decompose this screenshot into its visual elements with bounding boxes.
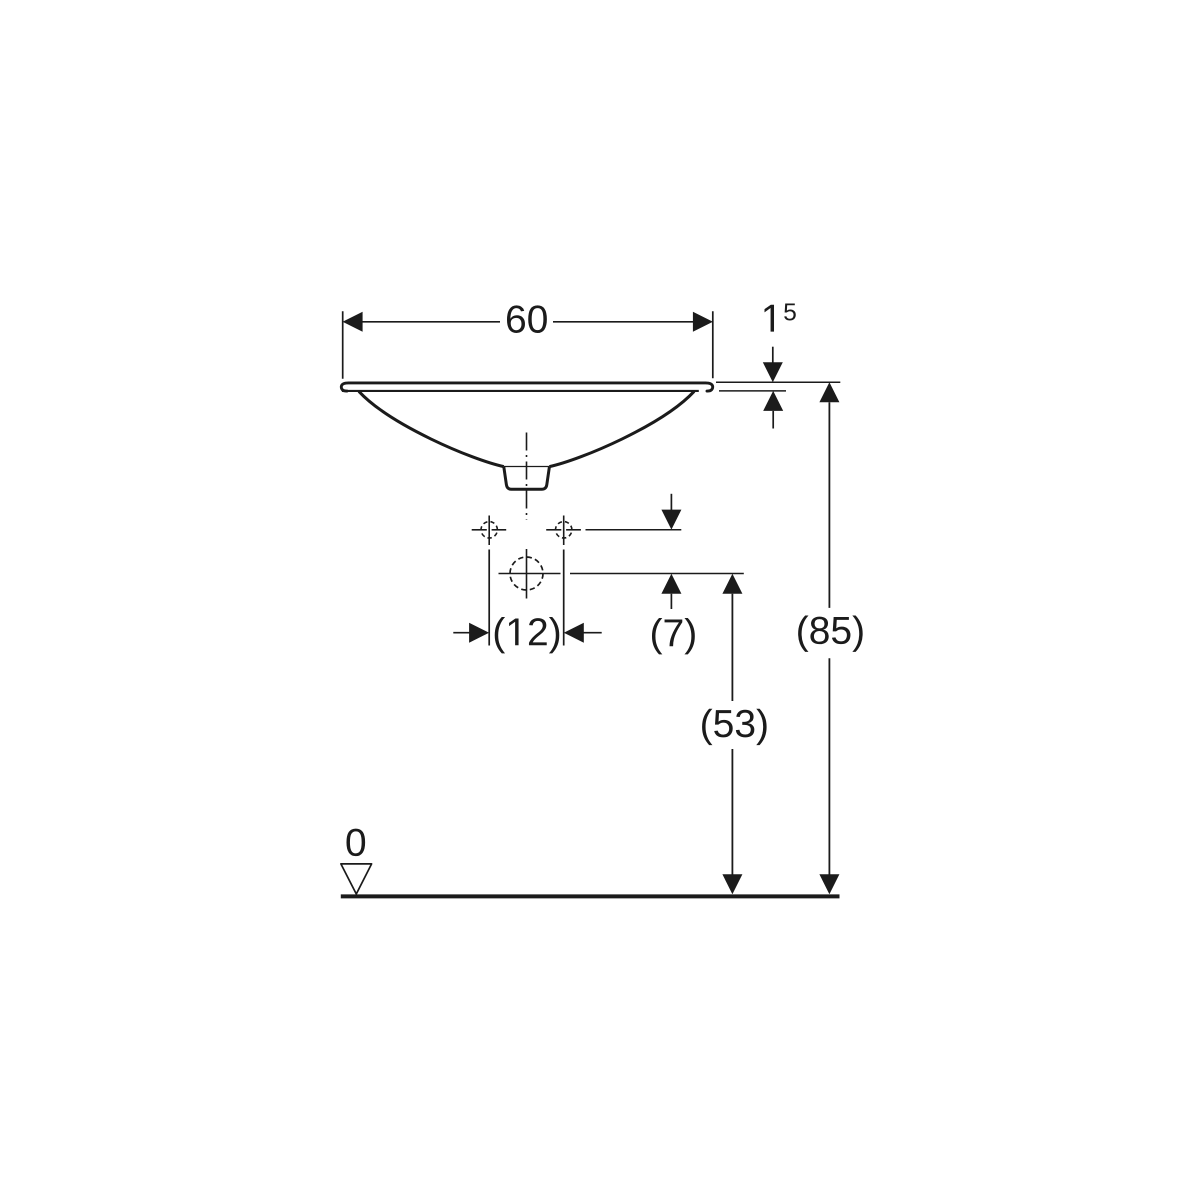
tap hole left [472, 516, 507, 546]
floor line [341, 894, 840, 898]
drain outlet [504, 467, 550, 490]
dimension 1.5 rim thickness [716, 303, 840, 428]
dimension (85) [798, 382, 863, 894]
dimension (7) [652, 494, 695, 655]
reference line tap hole level [586, 529, 682, 531]
reference line hole center level [570, 573, 744, 575]
basin bowl left wall [359, 391, 504, 466]
zero level marker [341, 829, 372, 894]
tap hole right [546, 516, 581, 546]
dimension (53) [702, 574, 767, 895]
washbasin rim underside [342, 390, 699, 392]
dimension (12) [453, 550, 601, 654]
washbasin rim top [341, 383, 712, 391]
centerline [526, 433, 528, 521]
dimension 60 [343, 305, 713, 378]
basin bowl right wall [549, 391, 694, 466]
mounting hole circle [499, 549, 561, 599]
